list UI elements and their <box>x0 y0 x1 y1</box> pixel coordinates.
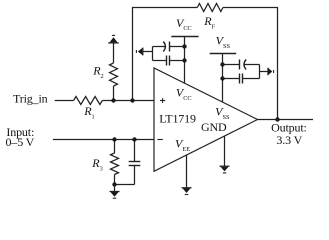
wire: VCC rail down to pin <box>184 37 186 84</box>
ground below VEE pin <box>182 187 192 189</box>
node: VSS cap junctions <box>220 62 224 66</box>
svg-text:3.3 V: 3.3 V <box>276 133 302 147</box>
resistor R2 <box>110 63 118 86</box>
wire: R3 top lead <box>114 140 116 154</box>
svg-text:R3: R3 <box>91 156 103 173</box>
wire: R3/C5 bottom join <box>115 184 135 186</box>
wire: GND pin down <box>224 136 226 166</box>
svg-text:VSS: VSS <box>215 105 230 121</box>
resistor RF <box>197 4 223 12</box>
node: right rail junction on output <box>275 117 279 121</box>
wire: VSS caps right bus <box>259 65 261 79</box>
svg-text:0–5 V: 0–5 V <box>6 135 35 149</box>
wire: VCC caps left bus <box>152 47 154 61</box>
wire: R2 bottom lead <box>113 86 115 101</box>
svg-text:RF: RF <box>203 14 215 31</box>
svg-text:GND: GND <box>201 120 227 134</box>
node: R2 junction <box>111 98 115 102</box>
svg-text:VEE: VEE <box>175 137 190 153</box>
node: VCC cap junctions <box>182 44 186 48</box>
wire: top run to right rail down to output <box>223 8 278 120</box>
capacitor C2 on VCC <box>153 60 167 62</box>
label minus input <box>157 139 162 141</box>
wire: R1 to noninverting input <box>102 100 154 102</box>
ground arrow (right) for VSS caps <box>267 68 269 76</box>
node: C5 top junction <box>132 137 136 141</box>
power arrow above R2 <box>108 42 118 44</box>
svg-text:VSS: VSS <box>216 34 231 50</box>
resistor R3 <box>111 153 119 175</box>
svg-text:LT1719: LT1719 <box>159 111 196 125</box>
node: R3 top junction <box>112 137 116 141</box>
wire: Input lead to inverting input <box>53 139 154 141</box>
ground below GND pin <box>220 165 230 167</box>
ground arrow (left) for VCC caps <box>142 48 144 56</box>
svg-text:VCC: VCC <box>176 85 192 101</box>
resistor R1 <box>74 97 103 105</box>
node: bottom junction <box>112 182 116 186</box>
capacitor C3 (polarized) on VSS <box>223 64 240 66</box>
capacitor C1 (polarized) on VCC <box>153 46 166 48</box>
svg-text:R2: R2 <box>92 64 104 81</box>
node: feedback junction on + wire <box>130 98 134 102</box>
wire: Trig_in lead <box>55 100 74 102</box>
VCC rail bar <box>171 36 198 38</box>
op-amp comparator LT1719 triangle <box>154 68 258 171</box>
wire: VSS rail down to pin <box>222 54 224 103</box>
svg-text:VCC: VCC <box>176 16 192 32</box>
label plus input <box>160 100 165 102</box>
capacitor C4 on VSS <box>223 78 240 80</box>
wire: feedback left rail and top run <box>133 8 198 101</box>
wire: VEE pin down <box>186 155 188 188</box>
VSS rail bar <box>210 53 237 55</box>
wire: R3 bottom lead <box>114 175 116 185</box>
ground below R3 <box>114 185 116 192</box>
wire: R2 top lead <box>113 43 115 63</box>
capacitor C5 beside R3 <box>134 140 136 162</box>
wire: output <box>258 119 314 121</box>
svg-text:R1: R1 <box>83 104 95 121</box>
svg-text:Trig_in: Trig_in <box>13 91 48 105</box>
